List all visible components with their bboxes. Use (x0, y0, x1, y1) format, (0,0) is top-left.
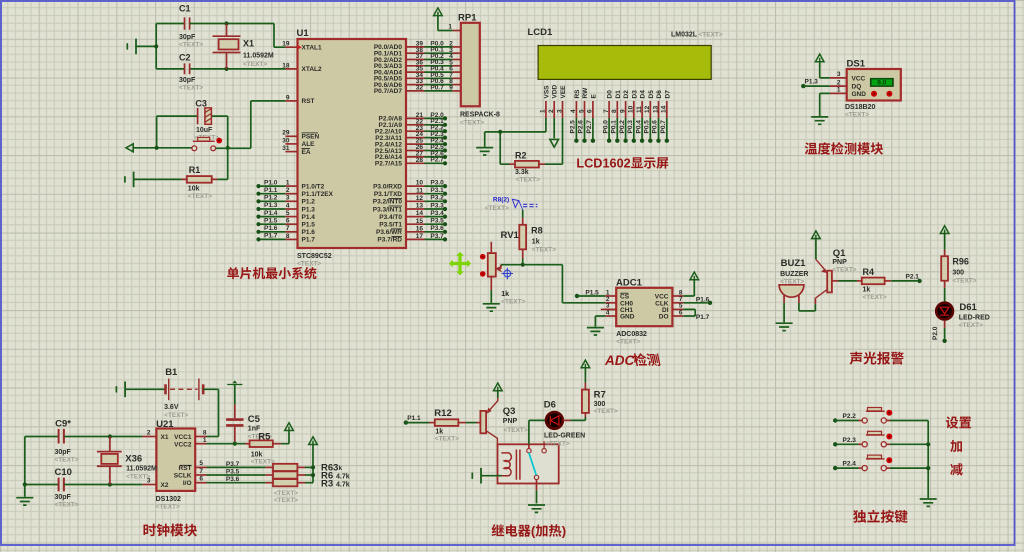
svg-text:R8(2): R8(2) (493, 197, 509, 204)
svg-text:LM032L: LM032L (671, 32, 698, 39)
svg-text:4: 4 (570, 109, 577, 113)
svg-text:LED-GREEN: LED-GREEN (544, 433, 585, 440)
svg-text:P1.7: P1.7 (264, 233, 278, 240)
svg-text:<TEXT>: <TEXT> (845, 112, 869, 119)
svg-text:R4: R4 (863, 267, 875, 277)
svg-text:D2: D2 (623, 90, 630, 99)
svg-text:<TEXT>: <TEXT> (435, 436, 459, 443)
svg-text:k: k (339, 465, 343, 472)
svg-text:P3.3: P3.3 (430, 202, 444, 209)
svg-text:1: 1 (203, 437, 207, 444)
svg-text:LCD1602: LCD1602 (576, 157, 630, 171)
svg-text:VCC: VCC (852, 76, 866, 83)
svg-text:): ) (562, 524, 566, 539)
svg-text:3: 3 (837, 71, 841, 78)
svg-text:LCD1: LCD1 (528, 27, 554, 38)
svg-text:30: 30 (282, 137, 290, 144)
svg-text:P0.7/AD7: P0.7/AD7 (374, 88, 403, 95)
svg-text:RST: RST (302, 98, 315, 105)
svg-text:P0.1: P0.1 (611, 120, 618, 134)
svg-text:P3.2/INT0: P3.2/INT0 (373, 199, 403, 206)
svg-text:D3: D3 (631, 90, 638, 99)
svg-text:P2.7/A15: P2.7/A15 (375, 161, 402, 168)
svg-text:Q3: Q3 (503, 406, 516, 417)
svg-text:<TEXT>: <TEXT> (545, 440, 569, 447)
svg-text:1: 1 (448, 24, 452, 31)
svg-text:STC89C52: STC89C52 (297, 253, 332, 260)
svg-text:P2.0: P2.0 (932, 326, 939, 340)
svg-text:P2.2: P2.2 (843, 413, 857, 420)
svg-text:P1.6: P1.6 (264, 225, 278, 232)
svg-text:P3.7: P3.7 (430, 233, 444, 240)
svg-text:BUZ1: BUZ1 (781, 258, 807, 269)
svg-text:P3.4: P3.4 (430, 210, 444, 217)
svg-text:P3.0/RXD: P3.0/RXD (373, 183, 402, 190)
svg-text:RST: RST (179, 465, 192, 472)
svg-text:DS18B20: DS18B20 (845, 104, 875, 111)
svg-text:E: E (590, 94, 597, 99)
svg-text:7: 7 (603, 109, 610, 113)
svg-text:R7: R7 (594, 390, 606, 401)
svg-text:P0.3: P0.3 (627, 120, 634, 134)
svg-text:C5: C5 (248, 414, 261, 425)
svg-text:P3.6/WR: P3.6/WR (376, 229, 402, 236)
svg-text:<TEXT>: <TEXT> (501, 299, 525, 306)
svg-text:P3.4/T0: P3.4/T0 (379, 214, 402, 221)
svg-text:8: 8 (611, 109, 618, 113)
svg-text:P3.5: P3.5 (430, 218, 444, 225)
svg-text:P2.7: P2.7 (430, 157, 444, 164)
svg-text:P1.1: P1.1 (407, 415, 421, 422)
svg-text:LED-RED: LED-RED (959, 314, 990, 321)
svg-text:P3.5/T1: P3.5/T1 (379, 222, 402, 229)
svg-text:31: 31 (282, 145, 290, 152)
svg-text:P1.4: P1.4 (264, 210, 278, 217)
svg-text:EA: EA (302, 149, 311, 156)
svg-text:RW: RW (582, 87, 589, 99)
svg-text:P1.5: P1.5 (585, 289, 599, 296)
svg-text:U21: U21 (156, 419, 174, 430)
svg-text:<TEXT>: <TEXT> (952, 277, 976, 284)
svg-text:14: 14 (661, 105, 668, 113)
svg-text:<TEXT>: <TEXT> (594, 408, 618, 415)
svg-text:18: 18 (282, 62, 290, 69)
svg-text:C2: C2 (179, 53, 191, 63)
svg-text:P0.6: P0.6 (652, 120, 659, 134)
svg-text:P0.7: P0.7 (660, 120, 667, 134)
svg-text:9: 9 (449, 85, 453, 92)
svg-text:<TEXT>: <TEXT> (179, 85, 203, 92)
svg-text:3: 3 (556, 109, 563, 113)
svg-text:P1.3: P1.3 (302, 206, 316, 213)
svg-text:1k: 1k (863, 287, 871, 294)
svg-text:P2.3: P2.3 (843, 437, 857, 444)
svg-text:X1: X1 (243, 39, 254, 49)
svg-text:B1: B1 (165, 367, 178, 378)
svg-text:<TEXT>: <TEXT> (274, 497, 298, 504)
svg-text:U1: U1 (297, 28, 310, 39)
svg-text:P3.6: P3.6 (226, 476, 240, 483)
svg-text:19: 19 (282, 41, 290, 48)
svg-text:P3.1/TXD: P3.1/TXD (374, 191, 402, 198)
svg-text:2: 2 (147, 430, 151, 437)
svg-text:10k: 10k (251, 452, 263, 459)
svg-text:<TEXT>: <TEXT> (164, 412, 188, 419)
svg-text:11: 11 (636, 106, 643, 113)
svg-text:<TEXT>: <TEXT> (780, 279, 804, 286)
svg-text:P3.3/INT1: P3.3/INT1 (373, 206, 403, 213)
svg-text:P0.5: P0.5 (644, 120, 651, 134)
svg-text:<TEXT>: <TEXT> (504, 427, 528, 434)
svg-text:C1: C1 (179, 4, 191, 14)
svg-text:VCC2: VCC2 (174, 441, 192, 448)
svg-text:C10: C10 (55, 467, 72, 478)
svg-text:P0.0: P0.0 (602, 120, 609, 134)
svg-text:10uF: 10uF (196, 127, 213, 134)
svg-text:ADC0832: ADC0832 (616, 331, 647, 338)
svg-text:R96: R96 (952, 257, 969, 267)
svg-text:9: 9 (619, 109, 626, 113)
svg-text:P3.7/RD: P3.7/RD (377, 237, 402, 244)
svg-text:1k: 1k (532, 238, 540, 245)
svg-text:<TEXT>: <TEXT> (126, 473, 150, 480)
svg-text:4: 4 (606, 309, 610, 316)
svg-text:30pF: 30pF (179, 77, 196, 84)
svg-text:P3.6: P3.6 (430, 225, 444, 232)
svg-text:P1.5: P1.5 (302, 222, 316, 229)
svg-text:9.0: 9.0 (877, 80, 886, 87)
svg-text:2: 2 (837, 79, 841, 86)
svg-text:D61: D61 (959, 302, 977, 313)
svg-text:XTAL2: XTAL2 (302, 66, 322, 73)
svg-text:GND: GND (620, 314, 635, 321)
svg-text:4.7k: 4.7k (336, 474, 350, 481)
svg-text:D6: D6 (656, 90, 663, 99)
svg-text:P3.7: P3.7 (226, 461, 240, 468)
svg-text:P1.7: P1.7 (302, 237, 316, 244)
svg-text:P3.0: P3.0 (430, 180, 444, 187)
svg-text:R12: R12 (434, 408, 451, 419)
svg-text:RV1: RV1 (501, 230, 520, 241)
svg-text:D1: D1 (615, 90, 622, 99)
svg-text:30pF: 30pF (179, 34, 196, 41)
svg-text:P1.2: P1.2 (302, 199, 316, 206)
svg-text:GND: GND (852, 91, 867, 98)
svg-text:P3.5: P3.5 (226, 468, 240, 475)
svg-text:SCLK: SCLK (174, 473, 192, 480)
svg-text:RS: RS (574, 89, 581, 99)
svg-text:P0.4: P0.4 (635, 120, 642, 134)
svg-text:29: 29 (282, 130, 290, 137)
svg-text:30pF: 30pF (55, 449, 72, 456)
svg-text:<TEXT>: <TEXT> (179, 42, 203, 49)
svg-text:C3: C3 (195, 98, 207, 108)
svg-text:(: ( (531, 524, 536, 539)
svg-text:DS1302: DS1302 (156, 496, 181, 503)
svg-text:X1: X1 (161, 434, 169, 441)
svg-text:DQ: DQ (852, 84, 862, 91)
svg-text:P1.7: P1.7 (696, 314, 710, 321)
svg-text:P1.0/T2: P1.0/T2 (302, 183, 325, 190)
svg-text:300: 300 (594, 401, 606, 408)
svg-text:6: 6 (587, 109, 594, 113)
svg-text:P1.1/T2EX: P1.1/T2EX (302, 191, 334, 198)
svg-text:D4: D4 (640, 90, 647, 99)
svg-text:<TEXT>: <TEXT> (251, 459, 275, 466)
svg-text:2: 2 (548, 109, 555, 113)
svg-text:300: 300 (952, 270, 964, 277)
svg-text:6: 6 (199, 476, 203, 483)
svg-text:8: 8 (203, 430, 207, 437)
svg-text:P1.3: P1.3 (805, 79, 819, 86)
svg-text:5: 5 (578, 109, 585, 113)
svg-text:P1.0: P1.0 (264, 179, 278, 186)
svg-text:R3: R3 (321, 478, 333, 489)
svg-text:<TEXT>: <TEXT> (485, 205, 509, 212)
svg-text:RP1: RP1 (458, 12, 477, 23)
svg-text:X36: X36 (125, 454, 142, 465)
svg-text:P1.3: P1.3 (264, 202, 278, 209)
svg-text:P2.7: P2.7 (586, 120, 593, 134)
svg-text:1: 1 (837, 87, 841, 94)
svg-text:12: 12 (644, 105, 651, 113)
svg-text:P1.6: P1.6 (696, 296, 710, 303)
svg-text:D0: D0 (607, 90, 614, 99)
svg-text:<TEXT>: <TEXT> (460, 120, 484, 127)
svg-text:P2.4: P2.4 (843, 461, 857, 468)
svg-text:3.3k: 3.3k (515, 169, 529, 176)
svg-text:<TEXT>: <TEXT> (55, 456, 79, 463)
svg-text:D5: D5 (648, 90, 655, 99)
svg-text:9: 9 (286, 94, 290, 101)
svg-text:VCC1: VCC1 (174, 434, 192, 441)
svg-text:10k: 10k (188, 186, 200, 193)
svg-text:C9*: C9* (55, 418, 71, 429)
svg-text:P0.2: P0.2 (619, 120, 626, 134)
svg-text:4.7k: 4.7k (336, 481, 350, 488)
svg-text:P1.5: P1.5 (264, 217, 278, 224)
svg-text:Q1: Q1 (833, 248, 846, 259)
svg-text:VEE: VEE (560, 85, 567, 99)
svg-text:10: 10 (628, 105, 635, 113)
svg-text:<TEXT>: <TEXT> (863, 294, 887, 301)
svg-text:P1.6: P1.6 (302, 229, 316, 236)
svg-text:3.6V: 3.6V (164, 404, 179, 411)
svg-text:<TEXT>: <TEXT> (274, 490, 298, 497)
svg-text:P3.2: P3.2 (430, 195, 444, 202)
svg-text:ADC: ADC (604, 353, 634, 368)
svg-text:<TEXT>: <TEXT> (516, 177, 540, 184)
svg-text:1k: 1k (501, 291, 509, 298)
svg-text:R1: R1 (189, 165, 201, 175)
svg-text:P0.7: P0.7 (430, 84, 444, 91)
svg-text:1: 1 (540, 109, 547, 113)
svg-text:DO: DO (659, 314, 669, 321)
svg-text:<TEXT>: <TEXT> (243, 61, 267, 68)
svg-text:P1.1: P1.1 (264, 187, 278, 194)
svg-text:1k: 1k (435, 429, 443, 436)
svg-text:11.0592M: 11.0592M (243, 53, 274, 60)
svg-text:P2.5: P2.5 (570, 120, 577, 134)
svg-text:I/O: I/O (183, 480, 192, 487)
svg-text:P2.1: P2.1 (906, 273, 920, 280)
svg-text:DS1: DS1 (847, 59, 866, 70)
svg-text:<TEXT>: <TEXT> (532, 247, 556, 254)
svg-text:XTAL1: XTAL1 (302, 45, 322, 52)
svg-text:VDD: VDD (552, 84, 559, 98)
svg-text:BUZZER: BUZZER (780, 271, 808, 278)
svg-text:RESPACK-8: RESPACK-8 (460, 112, 500, 119)
svg-text:PNP: PNP (832, 259, 847, 266)
svg-text:<TEXT>: <TEXT> (55, 502, 79, 509)
svg-text:VSS: VSS (543, 85, 550, 99)
svg-text:P1.2: P1.2 (264, 195, 278, 202)
svg-text:11.0592M: 11.0592M (126, 466, 157, 473)
svg-text:<TEXT>: <TEXT> (188, 193, 212, 200)
svg-text:30pF: 30pF (55, 494, 72, 501)
svg-text:<TEXT>: <TEXT> (699, 32, 723, 39)
svg-text:PSEN: PSEN (302, 134, 320, 141)
svg-text:<TEXT>: <TEXT> (297, 261, 321, 268)
svg-text:<TEXT>: <TEXT> (616, 338, 640, 345)
svg-text:13: 13 (652, 105, 659, 113)
svg-text:X2: X2 (161, 482, 169, 489)
svg-text:6: 6 (679, 309, 683, 316)
svg-text:P3.1: P3.1 (430, 187, 444, 194)
svg-text:7: 7 (199, 468, 203, 475)
svg-text:PNP: PNP (503, 418, 518, 425)
svg-text:<TEXT>: <TEXT> (832, 267, 856, 274)
svg-text:P1.4: P1.4 (302, 214, 316, 221)
svg-text:ALE: ALE (302, 141, 316, 148)
svg-text:<TEXT>: <TEXT> (156, 503, 180, 510)
svg-text:5: 5 (199, 460, 203, 467)
svg-text:P2.6: P2.6 (578, 120, 585, 134)
svg-text:ADC1: ADC1 (616, 277, 643, 288)
svg-text:D7: D7 (664, 90, 671, 99)
svg-text:R2: R2 (515, 150, 527, 160)
svg-text:D6: D6 (544, 399, 556, 410)
svg-text:<TEXT>: <TEXT> (959, 322, 983, 329)
svg-text:R8: R8 (531, 226, 543, 236)
